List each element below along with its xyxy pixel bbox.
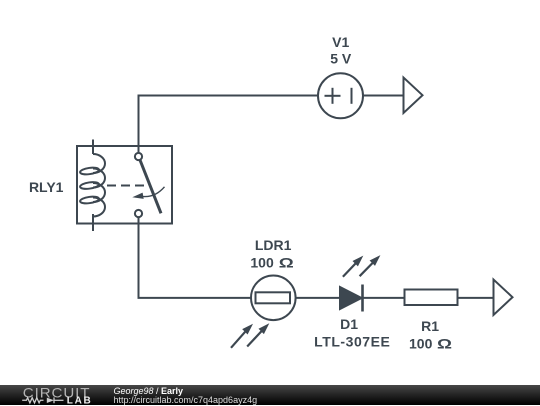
svg-text:LDR1: LDR1 xyxy=(255,237,292,253)
svg-text:LAB: LAB xyxy=(67,395,93,405)
svg-text:RLY1: RLY1 xyxy=(29,179,64,195)
svg-text:D1: D1 xyxy=(340,316,358,332)
svg-text:5 V: 5 V xyxy=(330,51,352,67)
svg-text:100: 100 xyxy=(250,255,274,271)
svg-text:100: 100 xyxy=(409,335,433,351)
svg-text:R1: R1 xyxy=(421,318,439,334)
svg-text:Ω: Ω xyxy=(279,255,294,271)
svg-text:V1: V1 xyxy=(332,34,349,50)
svg-text:Ω: Ω xyxy=(437,335,452,351)
svg-text:LTL-307EE: LTL-307EE xyxy=(314,334,390,350)
